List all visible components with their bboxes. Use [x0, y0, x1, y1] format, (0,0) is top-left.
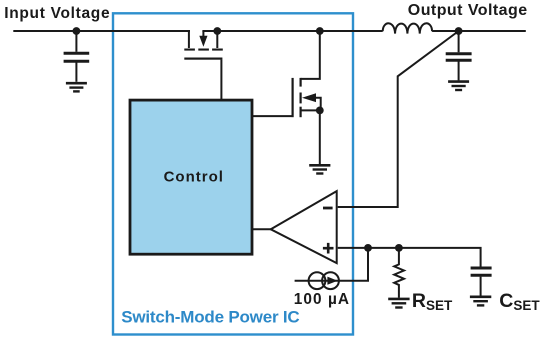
control block: [130, 100, 252, 254]
ground: input cap: [66, 83, 87, 91]
wire: feedback from output node to op-amp inverting input: [338, 31, 459, 207]
svg-text:Output Voltage: Output Voltage: [408, 2, 528, 19]
capacitor: input bypass cap wire top: [75, 31, 77, 52]
transistor Q2 gate bar: [292, 78, 294, 117]
wire: op-amp non-inverting input line to Rset/Cset: [338, 248, 481, 267]
ground: output cap: [448, 82, 469, 90]
ground: Cset: [470, 297, 491, 306]
IC boundary box (Switch-Mode Power IC): [113, 13, 353, 334]
transistor Q1 drain pad: [212, 49, 223, 51]
wire: input rail left segment: [13, 30, 190, 32]
resistor Rset: [394, 248, 404, 298]
op-amp minus sign: [323, 207, 333, 210]
svg-text:Control: Control: [164, 169, 224, 186]
op-amp plus sign: [323, 243, 334, 254]
transistor Q2 low-side NMOS : drain drop from rail: [301, 31, 320, 79]
capacitor Cset plates: [471, 268, 492, 275]
node: output junction: [455, 27, 463, 35]
current source I1 100uA : circles: [309, 272, 326, 289]
transistor Q2 body arrow (left): [314, 98, 321, 111]
wire: Cset to ground: [480, 277, 482, 296]
wire: op-amp output to control: [252, 228, 271, 230]
current source feed line: [295, 248, 368, 281]
transistor Q1 gate bar: [184, 58, 222, 60]
wire: Q1 gate to control box: [220, 60, 222, 99]
wire: input cap to ground: [75, 63, 77, 82]
op-amp U1 error amplifier: [271, 191, 337, 263]
ground: Q2 source: [309, 165, 330, 173]
transistor Q2 middle pad: [300, 93, 302, 104]
wire: switch node rail (middle segment): [202, 30, 382, 32]
transistor Q1 source pad: [184, 49, 195, 51]
svg-text:Switch-Mode Power IC: Switch-Mode Power IC: [121, 308, 299, 327]
inductor L1: [383, 23, 432, 33]
wire: output cap to ground: [458, 62, 460, 81]
capacitor: input bypass plates: [64, 53, 90, 61]
wire: control to Q2 gate: [252, 115, 292, 117]
transistor Q1 body arrow (down): [202, 31, 204, 36]
transistor Q1 middle pad: [198, 49, 209, 51]
node: switch node at Q2 drain: [316, 27, 324, 35]
node: current source to plus input: [364, 244, 372, 252]
node: Rset junction: [395, 244, 403, 252]
current source arrowhead: [327, 277, 337, 285]
node: Q2 source junction: [316, 107, 324, 115]
node: switch rail / Q1 drain junction: [213, 27, 221, 35]
wire: output rail right segment: [432, 30, 526, 32]
transistor Q2 bottom pad: [300, 107, 302, 118]
svg-text:Input Voltage: Input Voltage: [4, 5, 110, 22]
wire: Q2 source to ground: [319, 110, 321, 164]
transistor Q1 drain drop: [216, 31, 218, 48]
capacitor: output cap plates: [446, 54, 472, 61]
transistor Q2 source lead: [301, 109, 320, 111]
capacitor: output cap top wire: [458, 31, 460, 52]
transistor Q2 top pad: [300, 78, 302, 87]
transistor Q1 high-side PMOS : source drop from input rail: [189, 31, 190, 48]
ground: Rset: [388, 299, 409, 308]
node: input bypass junction: [73, 27, 81, 35]
svg-text:100 µA: 100 µA: [294, 291, 350, 308]
